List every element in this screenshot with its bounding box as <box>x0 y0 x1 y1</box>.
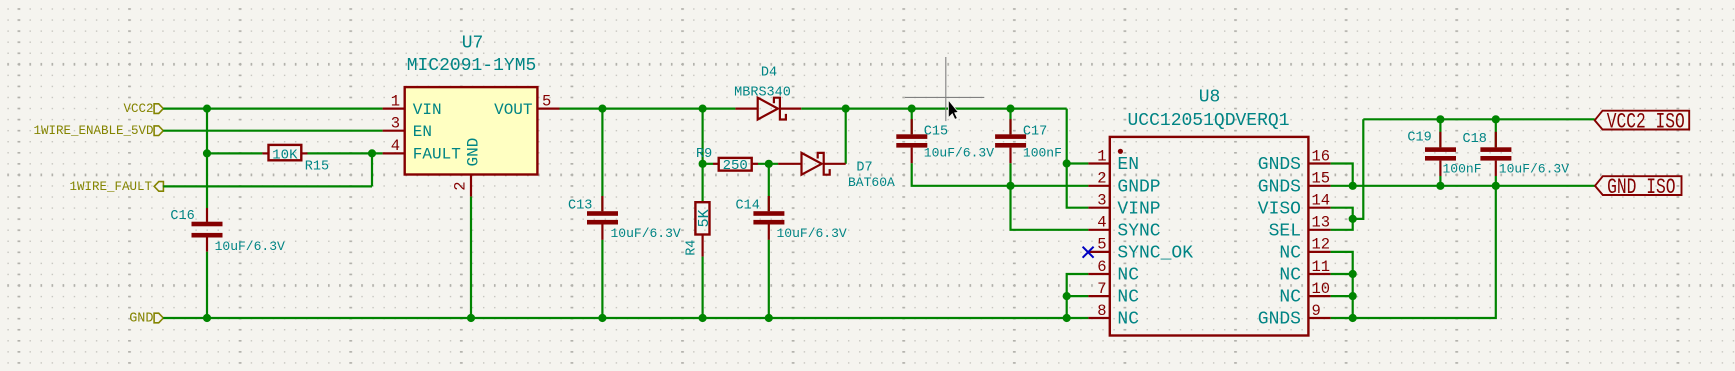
wire D7 cathode branch up <box>845 109 847 164</box>
svg-text:VISO: VISO <box>1258 199 1301 219</box>
resistor R15 pin left <box>262 152 268 154</box>
capacitor C16 <box>192 208 223 252</box>
wire VCC2 to U7 VIN <box>163 107 382 109</box>
capacitor C18 <box>1480 119 1511 176</box>
pin 4 SYNC <box>1088 214 1160 242</box>
svg-text:BAT60A: BAT60A <box>848 175 895 190</box>
svg-text:8: 8 <box>1097 302 1106 320</box>
svg-text:SEL: SEL <box>1269 221 1301 241</box>
wire rail down to R4 <box>701 109 703 203</box>
wire VOUT rail to D4 <box>560 107 736 109</box>
svg-text:R4: R4 <box>685 240 700 256</box>
svg-text:14: 14 <box>1312 192 1331 210</box>
wire C13 bottom to GND rail <box>601 240 603 318</box>
wire VISO node to VCC2_ISO rail <box>1353 119 1364 219</box>
resistor R4 body 5K <box>695 202 712 234</box>
svg-text:C14: C14 <box>736 198 760 213</box>
svg-text:1WIRE_FAULT: 1WIRE_FAULT <box>69 180 152 194</box>
node R15 left junction <box>203 149 211 157</box>
IC U8 body <box>1110 137 1309 336</box>
diode D7 BAT60A <box>778 153 846 175</box>
wire U7 GND pin to GND rail <box>470 197 472 318</box>
wire C16 bottom to GND rail <box>206 252 208 318</box>
pin 16 GNDS <box>1258 147 1331 175</box>
pin 9 GNDS <box>1258 302 1331 330</box>
svg-text:D7: D7 <box>856 160 872 175</box>
svg-text:EN: EN <box>413 123 432 141</box>
global label GND_ISO <box>1595 175 1682 200</box>
svg-text:GNDP: GNDP <box>1117 177 1160 197</box>
pin 1 VIN <box>383 92 442 119</box>
wire rail corner down to VINP <box>1067 109 1089 208</box>
svg-text:GNDS: GNDS <box>1258 155 1301 175</box>
svg-text:2: 2 <box>452 181 470 190</box>
svg-text:NC: NC <box>1279 266 1301 286</box>
svg-text:NC: NC <box>1117 266 1139 286</box>
svg-text:R15: R15 <box>305 159 329 174</box>
hier label 1WIRE_ENABLE_5VD <box>33 124 163 138</box>
wire VCC2 branch down to C16 <box>206 109 208 208</box>
node R4/GND junction <box>699 314 707 322</box>
hier label 1WIRE_FAULT <box>69 180 163 194</box>
svg-text:FAULT: FAULT <box>413 146 461 164</box>
resistor R9 body 250 <box>719 158 752 174</box>
svg-text:NC: NC <box>1279 288 1301 308</box>
node R4 top junction <box>699 105 707 113</box>
svg-text:1: 1 <box>1097 147 1106 165</box>
hier label GND <box>129 312 163 327</box>
wire VCC2_ISO rail <box>1363 118 1594 120</box>
wire R9 left <box>703 163 713 165</box>
svg-text:EN: EN <box>1117 155 1139 175</box>
svg-text:C15: C15 <box>924 124 948 139</box>
svg-text:C18: C18 <box>1463 132 1487 147</box>
node R15 right junction <box>368 149 376 157</box>
svg-text:7: 7 <box>1097 280 1106 298</box>
resistor R15 body 10K <box>269 145 302 163</box>
mouse pointer <box>948 100 958 119</box>
svg-text:1: 1 <box>391 92 400 110</box>
wire C19 bottom <box>1439 176 1441 186</box>
wire EN branch <box>1067 162 1089 164</box>
wire 1WIRE_FAULT row <box>163 185 372 187</box>
svg-text:NC: NC <box>1117 288 1139 308</box>
node U7 GND junction <box>467 314 475 322</box>
svg-text:NC: NC <box>1279 244 1301 264</box>
svg-text:10uF/6.3V: 10uF/6.3V <box>611 226 681 241</box>
wire C17 bottom to GNDP row <box>1009 163 1011 186</box>
svg-text:C16: C16 <box>170 209 194 224</box>
capacitor C17 <box>995 109 1026 164</box>
node C19/GND_ISO junction <box>1436 182 1444 190</box>
svg-text:6: 6 <box>1097 258 1106 276</box>
svg-text:SYNC_OK: SYNC_OK <box>1117 244 1193 264</box>
svg-text:GNDS: GNDS <box>1258 177 1301 197</box>
svg-text:5: 5 <box>542 92 551 110</box>
svg-text:100nF: 100nF <box>1023 146 1062 161</box>
pin 5 SYNC_OK <box>1088 236 1193 264</box>
wire NC pins 6/7 branch <box>1067 274 1089 318</box>
pin 5 VOUT <box>494 92 559 119</box>
svg-text:U8: U8 <box>1199 88 1221 108</box>
node VISO/SEL junction <box>1349 215 1357 223</box>
no-connect X on pin 5 <box>1083 247 1094 258</box>
svg-text:U7: U7 <box>462 34 484 54</box>
svg-text:11: 11 <box>1312 258 1331 276</box>
node C13/GND junction <box>598 314 606 322</box>
wire D4 cathode to C15 rail <box>801 107 1066 109</box>
svg-text:4: 4 <box>1097 214 1106 232</box>
node C17 top junction <box>1006 105 1014 113</box>
svg-text:10uF/6.3V: 10uF/6.3V <box>924 146 994 161</box>
wire C14 bottom to GND rail <box>768 240 770 318</box>
svg-text:10uF/6.3V: 10uF/6.3V <box>777 226 847 241</box>
wire R9 right to D7 <box>758 163 778 165</box>
pin 14 VISO <box>1258 192 1331 220</box>
wire pin14 branch <box>1331 208 1353 219</box>
svg-text:4: 4 <box>391 137 400 155</box>
resistor R15 pin right <box>301 152 307 154</box>
svg-text:GND: GND <box>465 138 483 167</box>
svg-text:VCC2: VCC2 <box>123 102 153 116</box>
svg-text:D4: D4 <box>761 66 777 81</box>
node C14 top junction <box>765 160 773 168</box>
node pin11 junction <box>1349 270 1357 278</box>
wire C15 bottom L to GNDP row <box>912 163 1089 186</box>
svg-text:10uF/6.3V: 10uF/6.3V <box>1499 161 1569 176</box>
pin 10 NC <box>1279 280 1330 308</box>
pin 8 NC <box>1088 302 1139 330</box>
node C13 top junction <box>598 105 606 113</box>
wire pin16 to pin15 <box>1331 164 1353 186</box>
wire NC pin7 stub <box>1067 295 1089 297</box>
svg-text:9: 9 <box>1312 302 1321 320</box>
node NC/GND rail junction <box>1063 314 1071 322</box>
svg-text:VOUT: VOUT <box>494 101 532 119</box>
node NC pin7 junction <box>1063 292 1071 300</box>
node C18/GND_ISO junction <box>1492 182 1500 190</box>
svg-text:5K: 5K <box>696 209 713 227</box>
wire pin12 chain down <box>1331 252 1353 318</box>
pin 15 GNDS <box>1258 170 1331 198</box>
resistor R9 pin left <box>713 163 719 165</box>
global label VCC2_ISO <box>1595 109 1690 134</box>
node C17/GNDP junction <box>1006 182 1014 190</box>
wire pin9 row to GND_ISO column <box>1353 186 1496 318</box>
svg-text:3: 3 <box>391 114 400 132</box>
svg-text:C13: C13 <box>568 198 592 213</box>
capacitor C15 <box>896 109 927 164</box>
wire C18 bottom <box>1495 176 1497 186</box>
svg-text:VINP: VINP <box>1117 199 1160 219</box>
wire GND_ISO row <box>1331 185 1595 187</box>
svg-text:GND: GND <box>129 312 153 327</box>
pin 1 marker dot <box>1118 149 1123 154</box>
svg-text:3: 3 <box>1097 192 1106 210</box>
svg-text:15: 15 <box>1312 170 1331 188</box>
hier label VCC2 <box>123 102 163 116</box>
node C19 top junction <box>1436 115 1444 123</box>
pin 3 VINP <box>1088 192 1160 220</box>
node VCC2/R15 junction <box>203 105 211 113</box>
pin 7 NC <box>1088 280 1139 308</box>
svg-text:MIC2091-1YM5: MIC2091-1YM5 <box>407 56 537 76</box>
node C14/GND junction <box>765 314 773 322</box>
node pin9 junction <box>1349 314 1357 322</box>
svg-text:1WIRE_ENABLE_5VD: 1WIRE_ENABLE_5VD <box>33 124 153 138</box>
svg-text:C17: C17 <box>1023 124 1047 139</box>
svg-text:R9: R9 <box>696 147 712 162</box>
wire GND rail <box>163 317 1088 319</box>
wire R15 left <box>207 152 262 154</box>
pin 11 NC <box>1279 258 1330 286</box>
node pin10 junction <box>1349 292 1357 300</box>
resistor R9 pin right <box>752 163 758 165</box>
wire pin10 stub <box>1331 295 1353 297</box>
node R9 left junction <box>699 160 707 168</box>
pin 6 NC <box>1088 258 1139 286</box>
node D4/D7 junction <box>842 105 850 113</box>
svg-text:5: 5 <box>1097 236 1106 254</box>
capacitor C19 <box>1425 119 1456 176</box>
diode D4 MBRS340 <box>735 98 801 120</box>
wire pin9 stub <box>1331 317 1353 319</box>
svg-text:GND_ISO: GND_ISO <box>1607 175 1676 200</box>
svg-text:10uF/6.3V: 10uF/6.3V <box>215 239 285 254</box>
svg-text:13: 13 <box>1312 214 1331 232</box>
svg-text:C19: C19 <box>1407 131 1431 146</box>
pin 2 GND <box>452 138 483 197</box>
pin 12 NC <box>1279 236 1330 264</box>
wire 1WIRE_ENABLE_5VD to U7 EN <box>163 130 382 132</box>
svg-text:SYNC: SYNC <box>1117 221 1160 241</box>
svg-text:NC: NC <box>1117 310 1139 330</box>
node C15 top junction <box>908 105 916 113</box>
cursor crosshair <box>905 57 984 121</box>
svg-text:250: 250 <box>723 158 748 174</box>
pin 13 SEL <box>1269 214 1331 242</box>
capacitor C14 <box>753 164 784 240</box>
pin 2 GNDP <box>1088 170 1160 198</box>
wire GNDP down to SYNC <box>1011 186 1089 230</box>
wire R4 bottom to GND rail <box>701 257 703 318</box>
pin 1 EN <box>1088 147 1139 175</box>
node pin15 junction <box>1349 182 1357 190</box>
wire pin13 branch <box>1331 219 1353 230</box>
svg-text:16: 16 <box>1312 147 1331 165</box>
wire FAULT branch down <box>371 153 373 186</box>
op-amp U7 body <box>405 87 538 174</box>
svg-text:VCC2_ISO: VCC2_ISO <box>1607 109 1685 134</box>
svg-text:UCC12051QDVERQ1: UCC12051QDVERQ1 <box>1127 111 1289 131</box>
node C16/GND junction <box>203 314 211 322</box>
svg-text:10K: 10K <box>272 147 298 163</box>
svg-text:GNDS: GNDS <box>1258 310 1301 330</box>
svg-text:10: 10 <box>1312 280 1331 298</box>
node EN branch junction <box>1063 159 1071 167</box>
svg-text:12: 12 <box>1312 236 1331 254</box>
pin 4 FAULT <box>383 137 461 164</box>
svg-text:MBRS340: MBRS340 <box>734 86 791 101</box>
pin 3 EN <box>383 114 432 140</box>
wire pin11 stub <box>1331 273 1353 275</box>
svg-text:2: 2 <box>1097 170 1106 188</box>
svg-text:VIN: VIN <box>413 101 442 119</box>
resistor R4 pin bottom <box>701 235 703 257</box>
capacitor C13 <box>587 109 618 240</box>
wire R15 right to U7 FAULT <box>308 152 383 154</box>
svg-text:100nF: 100nF <box>1443 161 1482 176</box>
node C18 top junction <box>1492 115 1500 123</box>
